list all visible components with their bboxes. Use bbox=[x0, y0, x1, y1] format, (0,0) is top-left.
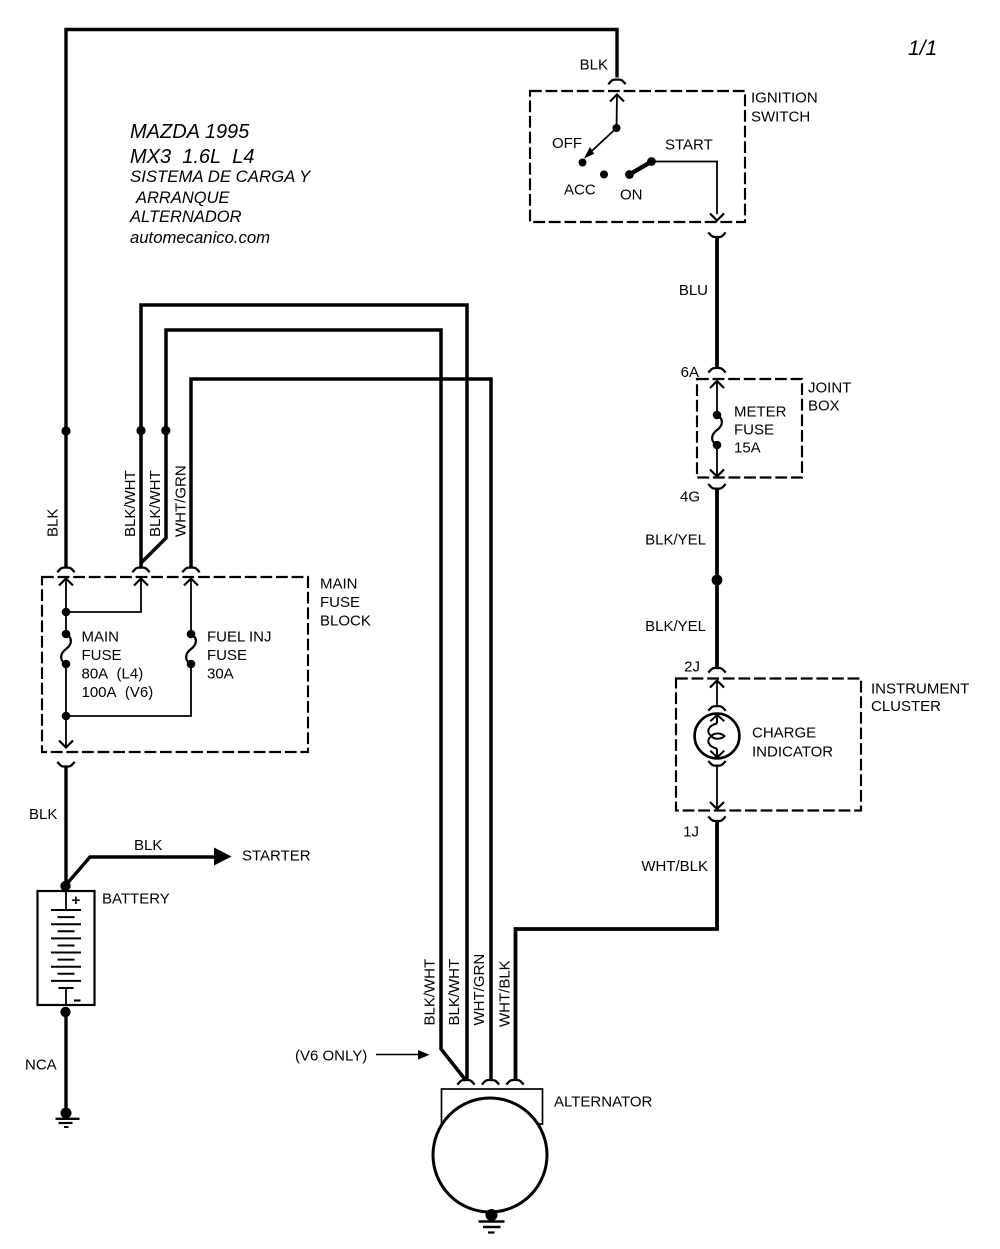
svg-text:2J: 2J bbox=[684, 659, 700, 676]
INSTRUMENT CLUSTER bbox=[676, 659, 969, 841]
svg-text:100A (V6): 100A (V6) bbox=[82, 684, 154, 701]
charge indicator lamp bbox=[708, 706, 725, 711]
wire lamp to cluster exit bbox=[716, 766, 718, 810]
svg-text:WHT/BLK: WHT/BLK bbox=[497, 960, 514, 1027]
contact ACC bbox=[600, 171, 608, 179]
svg-text:MX3 1.6L L4: MX3 1.6L L4 bbox=[130, 146, 255, 168]
svg-text:BLU: BLU bbox=[679, 282, 708, 299]
svg-text:30A: 30A bbox=[207, 666, 234, 683]
svg-text:WHT/GRN: WHT/GRN bbox=[471, 954, 488, 1026]
ignition switch box bbox=[530, 91, 745, 222]
switch wiper arm toward OFF bbox=[588, 128, 617, 155]
svg-text:METER: METER bbox=[734, 404, 787, 421]
joint box bbox=[697, 379, 802, 478]
arrow to starter bbox=[214, 848, 232, 866]
connector female arc terminal 3 bbox=[506, 1080, 523, 1085]
connector female arc terminal 2 bbox=[482, 1080, 499, 1085]
svg-text:+: + bbox=[72, 892, 81, 909]
ground at battery bbox=[56, 1108, 80, 1128]
junction on BLK/WHT wire C bbox=[161, 426, 170, 435]
connector 2J female arc bbox=[708, 668, 725, 673]
node junction BLK/YEL bbox=[712, 575, 723, 586]
junction on BLK feeder wire bbox=[61, 426, 70, 435]
wire BLK/YEL joint box to instrument cluster bbox=[715, 489, 719, 668]
svg-text:80A (L4): 80A (L4) bbox=[82, 666, 144, 683]
connector male arrow D bbox=[184, 579, 198, 586]
alternator terminal housing bbox=[442, 1089, 543, 1124]
wire BLK/WHT (C) V6-only run bbox=[142, 330, 467, 1081]
svg-text:MAZDA 1995: MAZDA 1995 bbox=[130, 121, 250, 143]
svg-text:MAIN: MAIN bbox=[320, 576, 358, 593]
svg-text:BLK/YEL: BLK/YEL bbox=[645, 532, 706, 549]
connector female arc below block bbox=[57, 762, 74, 767]
svg-text:BLK/WHT: BLK/WHT bbox=[147, 470, 164, 537]
svg-text:MAIN: MAIN bbox=[82, 629, 120, 646]
connector female arc wire B/C bbox=[132, 568, 149, 573]
instrument cluster box bbox=[676, 679, 861, 811]
svg-text:INDICATOR: INDICATOR bbox=[752, 744, 833, 761]
svg-text:BLK/WHT: BLK/WHT bbox=[446, 959, 463, 1026]
svg-text:STARTER: STARTER bbox=[242, 848, 311, 865]
wire BLK top horizontal from battery feed to ignition switch bbox=[66, 30, 617, 569]
connector 6A female arc bbox=[708, 368, 725, 373]
connector female arc terminal 1 bbox=[457, 1080, 474, 1085]
connector male arrow into switch bbox=[610, 95, 624, 102]
svg-text:ON: ON bbox=[620, 187, 643, 204]
svg-text:automecanico.com: automecanico.com bbox=[130, 228, 270, 247]
svg-text:SISTEMA DE CARGA Y: SISTEMA DE CARGA Y bbox=[130, 167, 312, 186]
svg-text:WHT/GRN: WHT/GRN bbox=[173, 465, 190, 537]
wire fuel inj fuse to join node bbox=[66, 664, 191, 716]
svg-text:15A: 15A bbox=[734, 440, 761, 457]
contact OFF bbox=[579, 159, 587, 167]
meter fuse 15A bbox=[713, 411, 722, 420]
wire BLU ignition switch to joint box bbox=[715, 237, 719, 369]
wire fuse to joint box exit bbox=[716, 445, 718, 476]
connector male arrow into joint box bbox=[710, 381, 724, 388]
alternator body bbox=[433, 1098, 547, 1212]
svg-text:BLK/WHT: BLK/WHT bbox=[122, 470, 139, 537]
connector 1J female arc bbox=[708, 816, 725, 821]
node battery negative bbox=[60, 1007, 70, 1017]
wire WHT/BLK instrument cluster to alternator bbox=[516, 822, 718, 1082]
battery plates bbox=[51, 910, 81, 988]
svg-text:BLK/YEL: BLK/YEL bbox=[645, 618, 706, 635]
switch pivot dot bbox=[613, 124, 621, 132]
svg-text:WHT/BLK: WHT/BLK bbox=[641, 858, 708, 875]
svg-text:BLK: BLK bbox=[29, 806, 57, 823]
wire NCA battery to ground bbox=[64, 1012, 67, 1108]
svg-text:BATTERY: BATTERY bbox=[102, 891, 170, 908]
connector male arrow into cluster bbox=[710, 681, 724, 688]
connector male arrow out of block bbox=[59, 741, 73, 748]
connector female arc wire D bbox=[182, 568, 199, 573]
wire WHT/GRN (D) fuse block to alternator bbox=[191, 379, 491, 1081]
connector female arc wire A bbox=[57, 568, 74, 573]
svg-text:ACC: ACC bbox=[564, 182, 596, 199]
svg-text:ALTERNADOR: ALTERNADOR bbox=[129, 208, 242, 226]
MAIN FUSE BLOCK bbox=[42, 568, 371, 767]
battery - terminal bbox=[65, 988, 67, 1005]
svg-text:FUEL INJ: FUEL INJ bbox=[207, 629, 271, 646]
node fuse outputs join bbox=[62, 712, 71, 721]
svg-text:BLK: BLK bbox=[580, 57, 608, 74]
svg-text:(V6 ONLY): (V6 ONLY) bbox=[295, 1048, 367, 1065]
svg-text:FUSE: FUSE bbox=[82, 647, 122, 664]
svg-text:ALTERNATOR: ALTERNATOR bbox=[554, 1094, 653, 1111]
wire BLK branch to starter bbox=[65, 857, 215, 886]
svg-text:BLOCK: BLOCK bbox=[320, 613, 371, 630]
svg-text:INSTRUMENT: INSTRUMENT bbox=[871, 681, 969, 698]
svg-text:BLK/WHT: BLK/WHT bbox=[422, 959, 439, 1026]
wire ON contact to switch output bbox=[652, 162, 718, 215]
svg-text:OFF: OFF bbox=[552, 135, 582, 152]
(V6 ONLY) note with arrow bbox=[295, 1048, 430, 1065]
svg-text:BOX: BOX bbox=[808, 398, 840, 415]
node battery positive bbox=[60, 881, 70, 891]
BATTERY bbox=[38, 881, 170, 1017]
svg-text:1/1: 1/1 bbox=[908, 37, 937, 60]
connector female arc below switch bbox=[708, 232, 725, 237]
IGNITION SWITCH bbox=[530, 57, 818, 238]
fuel inj fuse 30A bbox=[190, 579, 192, 634]
ground at alternator bbox=[479, 1209, 505, 1233]
svg-text:1J: 1J bbox=[683, 824, 699, 841]
svg-text:CHARGE: CHARGE bbox=[752, 725, 816, 742]
node tap dot bbox=[62, 608, 71, 617]
connector 4G female arc bbox=[708, 484, 725, 489]
switch common pole line bbox=[616, 95, 619, 128]
svg-text:ARRANQUE: ARRANQUE bbox=[135, 189, 231, 207]
contact ON bridge bbox=[630, 162, 652, 175]
svg-text:FUSE: FUSE bbox=[734, 422, 774, 439]
svg-text:IGNITION: IGNITION bbox=[751, 90, 818, 107]
svg-text:FUSE: FUSE bbox=[207, 647, 247, 664]
main fuse 80A bbox=[62, 630, 71, 639]
svg-text:JOINT: JOINT bbox=[808, 380, 851, 397]
svg-text:NCA: NCA bbox=[25, 1057, 57, 1074]
STARTER branch bbox=[134, 837, 311, 866]
svg-text:CLUSTER: CLUSTER bbox=[871, 698, 941, 715]
wire A into block with jog to B terminal bbox=[65, 579, 67, 634]
svg-text:4G: 4G bbox=[680, 489, 700, 506]
connector male arrow out of joint box bbox=[710, 470, 724, 477]
ALTERNATOR bbox=[433, 1080, 653, 1212]
main fuse block box bbox=[42, 577, 308, 752]
JOINT BOX bbox=[680, 364, 851, 506]
wire BLK fuse block to battery bbox=[64, 766, 67, 886]
connector 6-ignition female arc bbox=[608, 80, 625, 85]
svg-text:BLK: BLK bbox=[45, 509, 62, 537]
svg-text:START: START bbox=[665, 137, 713, 154]
wire main fuse to exit bbox=[65, 664, 67, 747]
WIRES-MAIN bbox=[65, 30, 717, 1109]
connector male arrow A bbox=[59, 579, 73, 586]
title block text bbox=[129, 121, 312, 247]
svg-text:BLK: BLK bbox=[134, 837, 162, 854]
junction on BLK/WHT wire B bbox=[136, 426, 145, 435]
svg-text:FUSE: FUSE bbox=[320, 594, 360, 611]
svg-text:SWITCH: SWITCH bbox=[751, 109, 810, 126]
connector male arrow B bbox=[134, 579, 148, 586]
battery case bbox=[38, 891, 95, 1005]
wire BLK/WHT (B) fuse block to alternator, upper run bbox=[141, 305, 467, 1081]
connector male arrow out of switch bbox=[710, 214, 724, 221]
connector male arrow out of cluster bbox=[710, 802, 724, 809]
